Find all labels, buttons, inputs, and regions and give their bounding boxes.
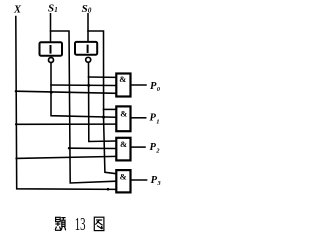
svg-text:&: & xyxy=(120,139,127,149)
svg-text:&: & xyxy=(119,74,126,84)
svg-text:S: S xyxy=(82,3,88,15)
svg-text:1: 1 xyxy=(54,6,58,14)
svg-text:3: 3 xyxy=(156,180,161,187)
svg-text:&: & xyxy=(120,109,127,119)
svg-text:2: 2 xyxy=(155,148,160,155)
svg-text:13: 13 xyxy=(75,215,86,234)
svg-text:1: 1 xyxy=(156,118,159,125)
svg-text:X: X xyxy=(13,4,22,15)
svg-text:0: 0 xyxy=(88,6,92,14)
svg-text:&: & xyxy=(120,172,127,182)
